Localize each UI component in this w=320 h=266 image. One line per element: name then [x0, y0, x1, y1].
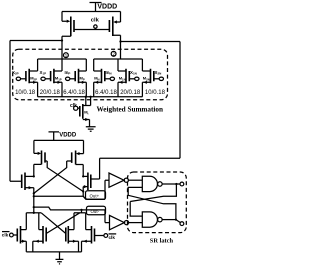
svg-text:clk: clk — [91, 17, 100, 23]
svg-text:10/0.18: 10/0.18 — [145, 90, 166, 96]
wire G1 output — [162, 183, 180, 185]
Out- label box — [87, 206, 106, 215]
svg-text:M1N: M1N — [119, 75, 126, 81]
ground (tail) — [86, 127, 96, 131]
wire left latch column — [33, 188, 35, 213]
svg-text:Out-: Out- — [91, 209, 100, 214]
junction N2 drain — [82, 175, 84, 177]
wire VDDD rail (stage 2) — [34, 139, 84, 141]
transistor P2 (stage2 right PMOS) — [80, 140, 84, 153]
svg-text:6.4/0.18: 6.4/0.18 — [95, 90, 117, 96]
junction left cross — [33, 192, 35, 194]
svg-text:10/0.18: 10/0.18 — [15, 90, 36, 96]
transistor S1 (bottom left clkb switch) — [17, 226, 20, 244]
svg-text:X1P: X1P — [40, 70, 47, 76]
junction right cross — [82, 190, 84, 192]
svg-text:MN: MN — [94, 75, 99, 81]
wire Out- — [34, 207, 110, 223]
svg-text:M1P: M1P — [55, 75, 62, 81]
NAND gate G2 — [142, 212, 157, 227]
wire bottom left drain bar — [26, 212, 41, 214]
junction right drain — [119, 40, 121, 42]
transistor M1p — [51, 69, 54, 83]
ground (stage 2) — [56, 252, 64, 264]
power VDDD (top) — [90, 3, 102, 12]
svg-text:20/0.18: 20/0.18 — [40, 90, 61, 96]
wire VDDD rail (top) — [62, 11, 121, 13]
transistor Mp — [75, 69, 78, 83]
wire right latch column — [82, 187, 84, 197]
clkb input (right) — [95, 235, 104, 237]
transistor M9 (top-left PMOS precharge) — [62, 12, 67, 22]
weighted summation dashed box — [13, 49, 168, 99]
junction right bar column top — [80, 209, 82, 211]
wire right bar column — [81, 210, 83, 213]
node 1 rail — [38, 58, 87, 60]
wire gate clk (top pair) — [74, 29, 109, 31]
transistor L2 (bottom right latch NMOS) — [66, 226, 69, 244]
svg-text:VDDD: VDDD — [97, 4, 117, 11]
junction left out2 — [33, 206, 35, 208]
wire P1 drain — [34, 164, 42, 176]
wire P2 drain — [76, 165, 84, 177]
wire feedback right (node 2 to stage2 gate) — [91, 42, 180, 180]
svg-text:X2N: X2N — [155, 70, 162, 76]
wire G2 output — [162, 219, 176, 221]
NAND gate G1 — [142, 176, 157, 191]
svg-text:Out+: Out+ — [90, 194, 100, 199]
wire common source rail — [38, 96, 143, 98]
junction tail left — [85, 96, 87, 98]
junction left bar — [33, 212, 35, 214]
output Qb terminal — [180, 222, 184, 226]
svg-text:SR latch: SR latch — [150, 237, 174, 244]
svg-text:6.4/0.18: 6.4/0.18 — [63, 90, 85, 96]
transistor Mt (tail) — [80, 104, 83, 119]
inverter I2 — [110, 215, 125, 229]
node 2 marker — [111, 51, 116, 56]
svg-text:Mt: Mt — [84, 110, 88, 116]
transistor P1 (stage2 left PMOS) — [34, 140, 38, 153]
svg-text:VDDD: VDDD — [59, 133, 77, 139]
junction Qb node — [175, 218, 177, 220]
wire cross-couple P2 gate — [34, 161, 72, 193]
junction tail right — [89, 96, 91, 98]
svg-text:Weighted Summation: Weighted Summation — [97, 105, 164, 113]
junction left drain — [61, 39, 63, 41]
svg-text:20/0.18: 20/0.18 — [120, 90, 141, 96]
svg-text:MP: MP — [80, 75, 85, 81]
wire feedback left (node 1 to stage2 gate) — [10, 41, 62, 182]
transistor M10 (top-right PMOS precharge) — [117, 12, 121, 23]
svg-text:clk: clk — [109, 235, 116, 240]
wire feedback Qb to G1 — [128, 187, 176, 219]
wire bottom source rail — [26, 251, 81, 253]
svg-text:clk: clk — [2, 233, 9, 238]
wire right drain to node 2 — [113, 35, 121, 59]
svg-text:M2P: M2P — [30, 75, 37, 81]
transistor M2p — [26, 69, 29, 83]
transistor L1 (bottom left latch NMOS) — [43, 226, 46, 244]
transistor N1 (stage2 left input NMOS) — [22, 173, 25, 191]
inverter I1 — [109, 173, 124, 187]
node 1 marker — [64, 53, 69, 58]
transistor N2 (stage2 right input NMOS) — [88, 173, 91, 191]
clkb input (left) — [2, 231, 10, 233]
node 2 rail — [94, 58, 143, 60]
wire Out+ — [34, 180, 109, 199]
junction left out — [33, 195, 35, 197]
wire feedback Q to G2 — [130, 184, 176, 216]
junction N1 drain — [33, 175, 35, 177]
wire bottom right drain bar — [74, 212, 86, 214]
wire tail drain — [83, 97, 91, 106]
wire cross bottom A — [46, 213, 80, 234]
Out+ label box — [86, 191, 106, 200]
wire left drain to node 1 — [62, 36, 71, 59]
wire cross bottom B — [41, 213, 66, 234]
junction Q node — [175, 183, 177, 185]
svg-text:InP: InP — [65, 70, 71, 76]
transistor S2 (bottom right clkb switch) — [92, 226, 95, 244]
SR latch dashed box — [128, 172, 187, 233]
svg-text:InN: InN — [106, 70, 112, 76]
wire cross-couple P1 gate — [45, 161, 83, 192]
svg-text:M2N: M2N — [143, 75, 150, 81]
power VDDD (stage 2) — [49, 132, 60, 141]
svg-text:X1N: X1N — [130, 70, 137, 76]
output Q terminal — [180, 182, 184, 186]
wire Qb to terminal — [176, 220, 181, 223]
